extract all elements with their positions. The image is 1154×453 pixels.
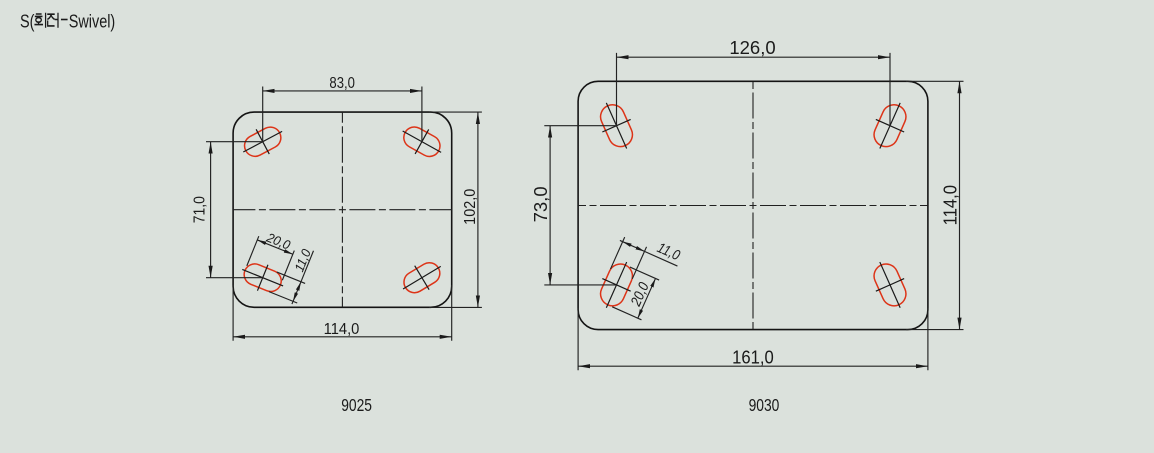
slot TR: [396, 119, 448, 165]
svg-text:S(: S(: [20, 11, 35, 32]
svg-text:9025: 9025: [341, 396, 372, 415]
dim 126,0 extension lines: [617, 53, 891, 126]
svg-text:114,0: 114,0: [324, 321, 360, 339]
slot detail dims 11,0 / 20,0 (right plate): [594, 224, 685, 324]
svg-text:Swivel): Swivel): [69, 11, 115, 32]
ext lines 11,0: [269, 272, 305, 303]
svg-text:11,0: 11,0: [292, 247, 314, 274]
dim line 11,0 with outside arrows: [623, 242, 645, 252]
svg-text:20,0: 20,0: [264, 230, 293, 253]
dim line 20,0: [257, 240, 293, 254]
svg-text:73,0: 73,0: [530, 186, 551, 222]
plate 9025 outline: [233, 112, 452, 307]
hangul 전: [47, 13, 58, 28]
slot BR: [396, 254, 448, 301]
dim 114,0 line: [233, 336, 452, 338]
plate 9030 outline: [578, 81, 928, 329]
dim 114,0 line: [959, 81, 961, 329]
dim 161,0 line: [578, 365, 928, 367]
ext lines 11,0: [610, 237, 646, 279]
slot BL: [592, 256, 641, 314]
dim 73,0 extension lines: [544, 126, 616, 285]
ext lines 20,0: [612, 267, 659, 320]
dim 83,0 line: [263, 90, 422, 92]
centerline horizontal: [233, 209, 452, 211]
svg-text:71,0: 71,0: [191, 196, 209, 223]
slot BL: [237, 256, 288, 298]
ext lines 20,0: [247, 236, 294, 280]
svg-text:102,0: 102,0: [462, 189, 480, 225]
title S(회전-Swivel): [20, 11, 115, 32]
dim 102,0 line: [477, 112, 479, 307]
centerline horizontal: [578, 205, 928, 207]
svg-text:161,0: 161,0: [732, 347, 774, 368]
svg-text:9030: 9030: [749, 396, 780, 415]
slot detail dims 20,0 / 11,0 (left plate): [240, 227, 319, 305]
slot TL: [237, 119, 289, 164]
centerline vertical: [752, 81, 754, 329]
slot TR: [866, 97, 915, 155]
dim 102,0 extension lines: [429, 112, 482, 307]
svg-text:126,0: 126,0: [729, 37, 775, 58]
centerline vertical: [341, 112, 343, 307]
dim 161,0 extension lines: [578, 308, 928, 370]
dim line 11,0 with outside arrows: [293, 282, 301, 302]
slot TL: [592, 97, 641, 155]
hangul 회: [34, 13, 45, 28]
dim 114,0 extension lines: [906, 81, 964, 329]
dim line 20,0: [638, 278, 656, 318]
svg-text:83,0: 83,0: [329, 75, 355, 92]
dim 73,0 line: [549, 126, 551, 285]
dim 71,0 extension lines: [206, 142, 263, 278]
dim 126,0 line: [617, 56, 891, 58]
svg-text:114,0: 114,0: [940, 185, 961, 226]
dim 114,0 extension lines: [233, 285, 452, 341]
dim 71,0 line: [210, 142, 212, 278]
dash: [61, 19, 68, 21]
svg-text:11,0: 11,0: [655, 239, 683, 263]
slot BR: [866, 256, 915, 314]
dim 83,0 extension lines: [263, 87, 422, 142]
